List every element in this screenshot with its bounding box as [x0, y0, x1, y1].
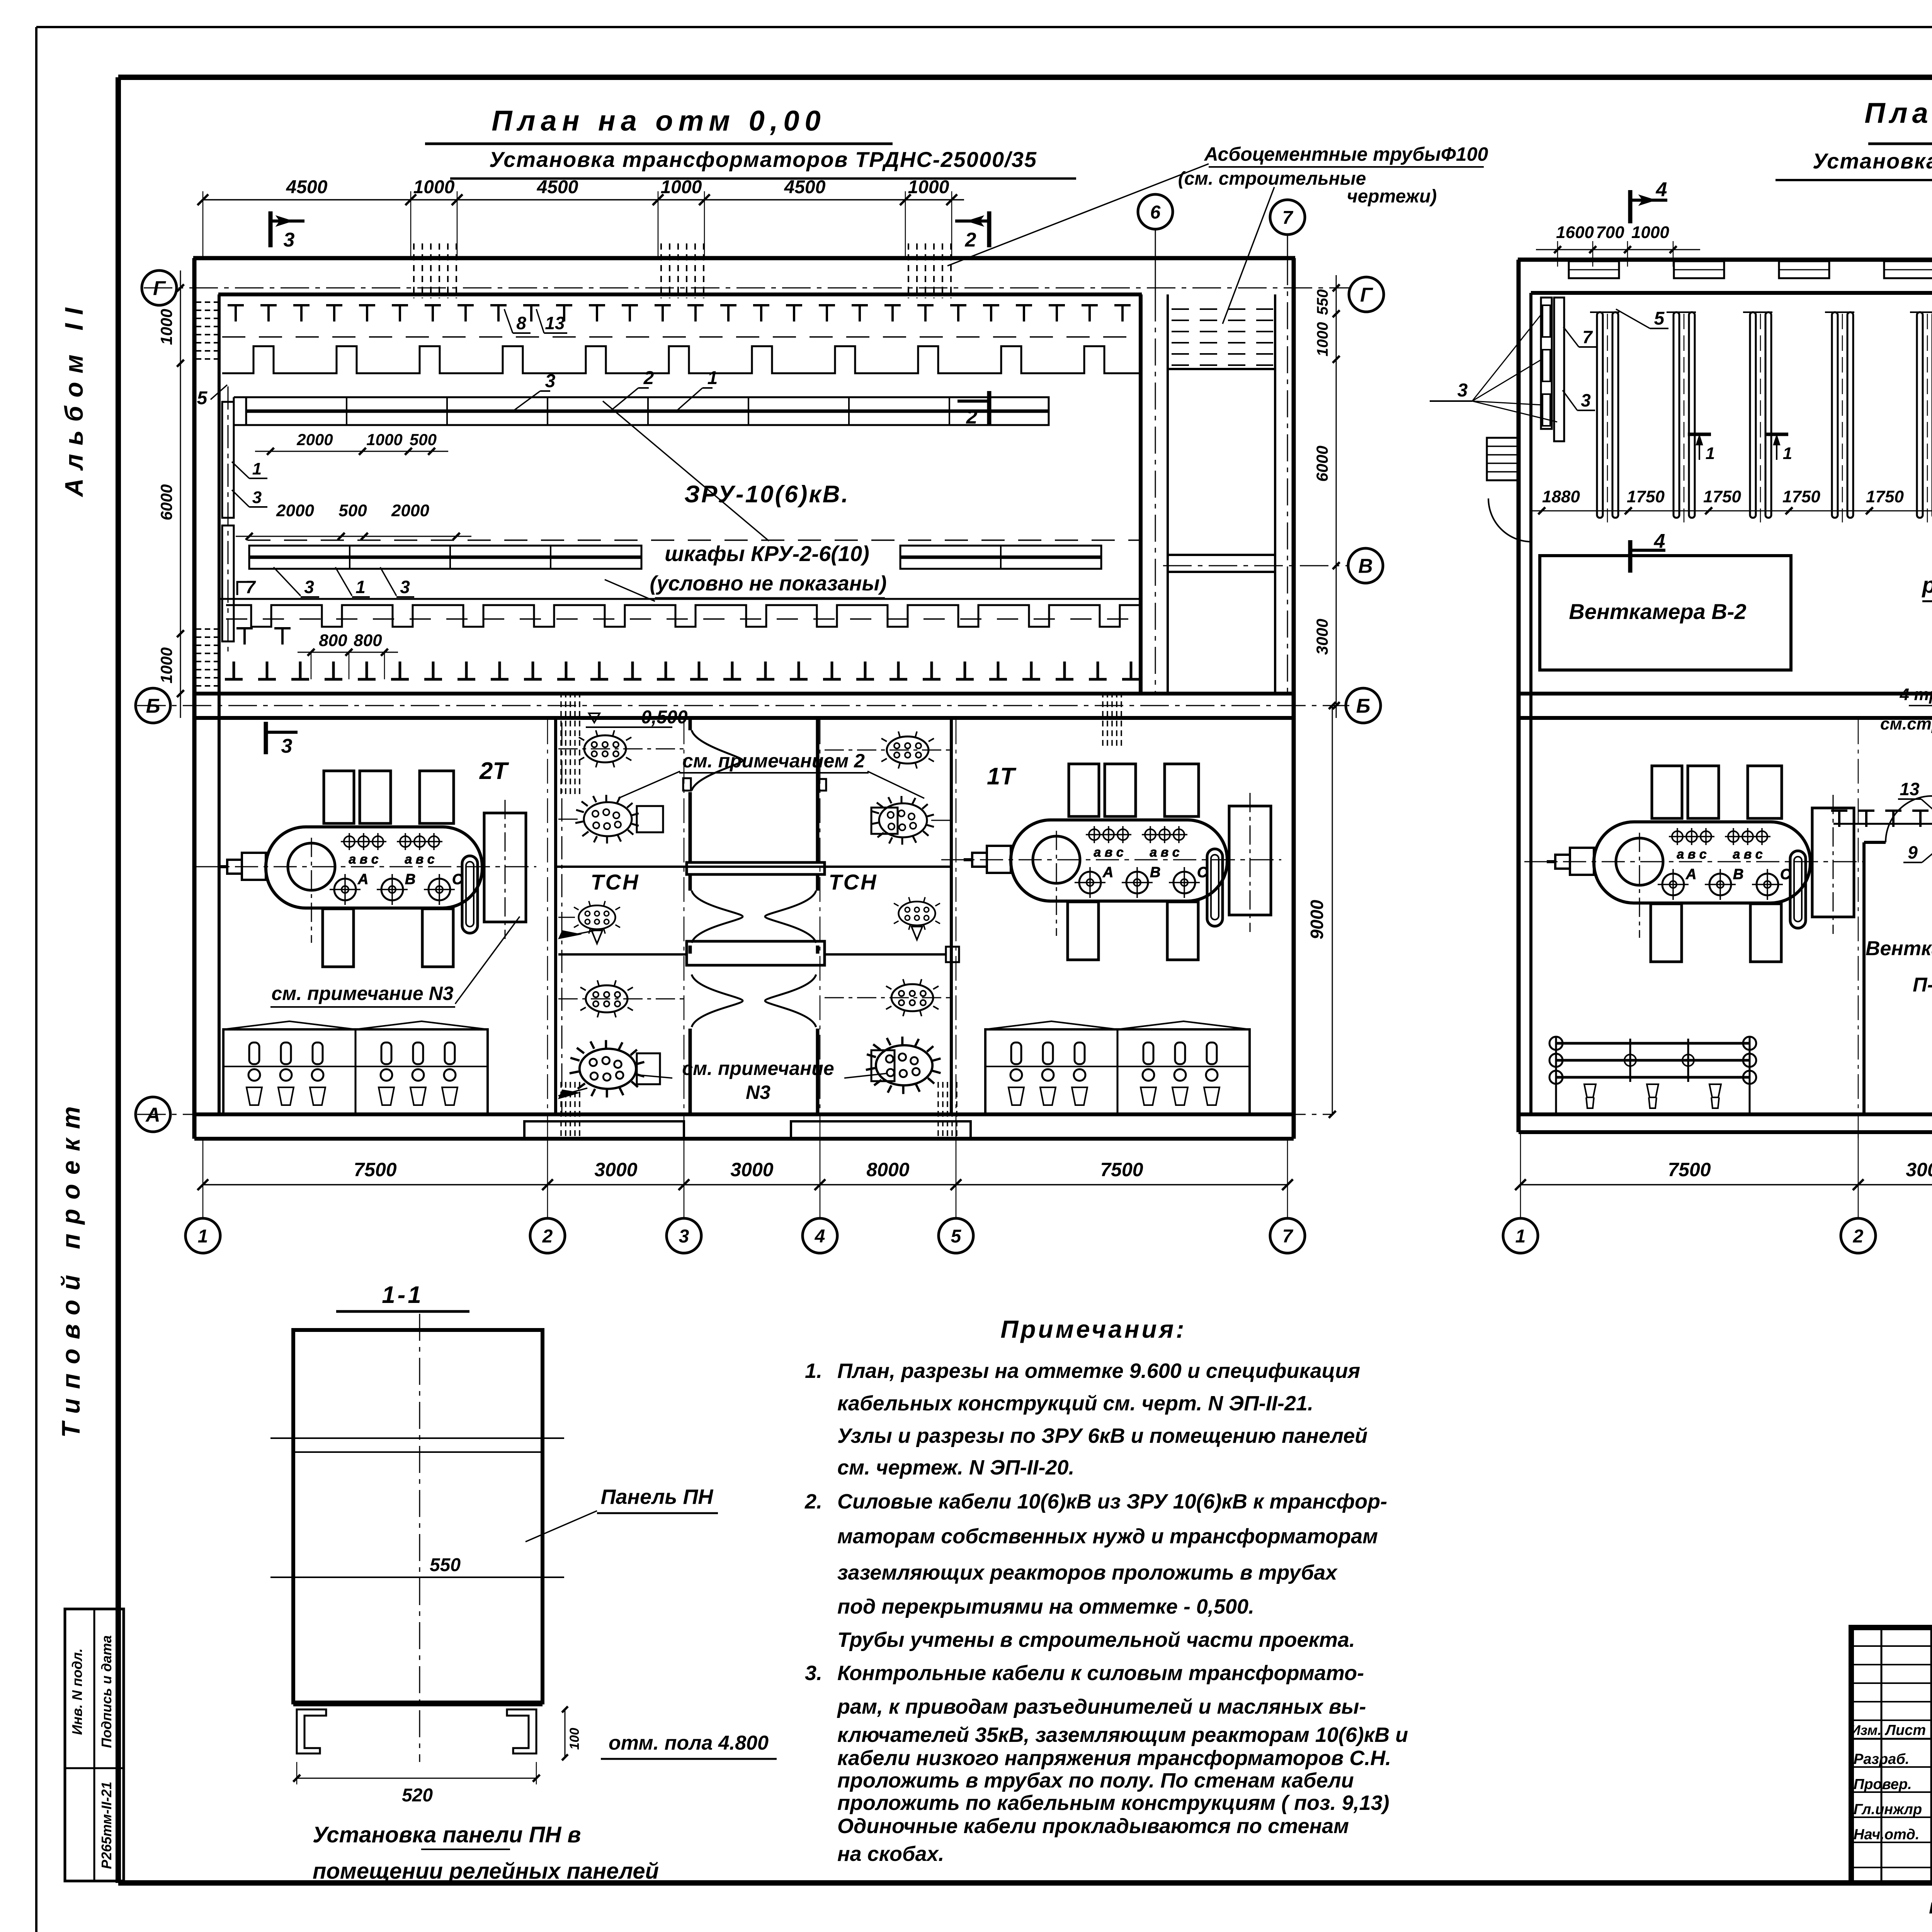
svg-text:700: 700: [1596, 223, 1624, 242]
svg-text:1: 1: [1515, 1226, 1526, 1247]
riser bundle crossing wall А left: [560, 1082, 562, 1140]
axis dash-dot verticals right plan: [1858, 719, 1859, 1138]
svg-text:релейных панелей: релейных панелей: [1921, 573, 1932, 598]
svg-text:1: 1: [1706, 444, 1715, 463]
svg-text:7500: 7500: [354, 1159, 396, 1180]
svg-text:550: 550: [430, 1555, 461, 1575]
svg-text:1880: 1880: [1542, 487, 1580, 506]
TSN spiky switchgear with attachment: [575, 795, 639, 844]
svg-text:П-2: П-2: [1913, 974, 1932, 996]
svg-text:(см. строительные: (см. строительные: [1178, 168, 1366, 189]
svg-text:3: 3: [281, 735, 293, 757]
grid circle В right: [1348, 548, 1383, 583]
svg-text:Г: Г: [153, 277, 166, 300]
svg-text:Альбом II: Альбом II: [60, 299, 88, 498]
svg-text:1000: 1000: [366, 430, 402, 449]
revision table verticals: [1881, 1628, 1883, 1883]
section flag 2 top: [987, 211, 992, 247]
svg-text:Контрольные кабели к силовым: Контрольные кабели к силовым трансформат…: [837, 1662, 1364, 1685]
svg-text:1000: 1000: [908, 177, 949, 197]
svg-text:2Т: 2Т: [479, 758, 509, 784]
svg-text:Нач.отд.: Нач.отд.: [1854, 1827, 1919, 1843]
signature rows: [1851, 1766, 1932, 1768]
svg-text:Подпись и дата: Подпись и дата: [99, 1635, 114, 1748]
svg-text:проложить в трубах по полу: проложить в трубах по полу. По стенам ка…: [837, 1769, 1354, 1792]
channel profiles under panel: [297, 1709, 326, 1753]
door threshold pads bottom wall: [524, 1121, 684, 1139]
TSN big spiky switchgear bottom: [570, 1040, 645, 1098]
right plan building outer walls: [1518, 258, 1932, 262]
svg-text:2: 2: [542, 1226, 553, 1247]
left plan building outer walls: [193, 256, 1295, 260]
svg-text:Б: Б: [1356, 695, 1371, 718]
transformer 2T: [196, 771, 536, 967]
svg-text:5: 5: [197, 388, 208, 408]
svg-text:7: 7: [1582, 327, 1593, 347]
cable channel band 2: [249, 546, 641, 556]
dim 100 vertical: [565, 1709, 566, 1757]
svg-text:Б: Б: [146, 695, 160, 718]
vent chamber P-2 walls: [1862, 842, 1866, 1114]
svg-text:13: 13: [545, 313, 565, 333]
svg-text:1750: 1750: [1703, 487, 1741, 506]
busbar assembly right (1T room): [985, 1021, 1250, 1029]
svg-text:800: 800: [319, 631, 347, 650]
svg-text:Установка трансформаторов ТР: Установка трансформаторов ТРДНС-25000/35: [489, 147, 1037, 172]
annex room divisions: [1168, 368, 1275, 370]
panel pair axis dash lines: [1607, 314, 1608, 522]
svg-text:Силовые кабели 10(6)кВ из ЗР: Силовые кабели 10(6)кВ из ЗРУ 10(6)кВ к …: [837, 1490, 1387, 1513]
svg-text:Типовой проект: Типовой проект: [56, 1097, 85, 1438]
axis B dash-dot (annex): [1163, 565, 1349, 566]
svg-text:см. примечание N3: см. примечание N3: [271, 983, 453, 1004]
svg-text:2000: 2000: [391, 501, 429, 520]
svg-text:см. чертеж. N ЭП-II-20.: см. чертеж. N ЭП-II-20.: [837, 1456, 1075, 1479]
left-side cable structures in hall: [1541, 298, 1552, 429]
svg-text:3000: 3000: [730, 1159, 773, 1180]
svg-text:копировал: Ш.Фил ф.22: копировал: Ш.Фил ф.22: [1929, 1895, 1932, 1918]
svg-text:В: В: [1358, 555, 1373, 578]
axis Б dash-dot line: [137, 705, 1349, 706]
exterior stair left side: [1487, 438, 1518, 480]
svg-text:5: 5: [1654, 308, 1665, 329]
section flag 4 top: [1628, 190, 1633, 223]
revision table small rows: [1851, 1645, 1932, 1647]
svg-text:чертежи): чертежи): [1347, 186, 1437, 207]
svg-text:3: 3: [400, 577, 410, 597]
svg-text:Р265тм-II-21: Р265тм-II-21: [99, 1782, 114, 1869]
bottom line of panel: [293, 1703, 543, 1706]
svg-text:500: 500: [338, 501, 367, 520]
svg-text:проложить по кабельным конс: проложить по кабельным конструкциям ( по…: [837, 1791, 1389, 1815]
svg-text:5: 5: [951, 1226, 962, 1247]
title block outer border: [1851, 1628, 1932, 1883]
sheet outer border: [36, 26, 1932, 28]
riser bundle crossing wall А mid: [937, 1082, 939, 1140]
svg-text:Трубы учтены в строительной: Трубы учтены в строительной части проект…: [837, 1628, 1355, 1651]
grid circle 6 top with axis line: [1138, 194, 1173, 229]
svg-text:Венткамера В-2: Венткамера В-2: [1569, 599, 1746, 624]
sheet inner frame: [118, 75, 1932, 80]
corridor walls with door gaps: [689, 718, 692, 730]
svg-text:4500: 4500: [784, 177, 826, 197]
svg-text:4: 4: [1654, 530, 1665, 553]
svg-text:7: 7: [1282, 1226, 1294, 1247]
section flag 3 top: [269, 211, 273, 247]
svg-text:см. примечание: см. примечание: [682, 1058, 834, 1079]
standing T row above wall B: [225, 662, 243, 679]
svg-text:2.: 2.: [804, 1490, 822, 1513]
svg-text:1000: 1000: [661, 177, 702, 197]
svg-text:1750: 1750: [1782, 487, 1820, 506]
svg-text:отм. пола 4.800: отм. пола 4.800: [609, 1732, 769, 1754]
svg-text:Инв. N подл.: Инв. N подл.: [69, 1648, 85, 1735]
svg-text:1: 1: [1783, 444, 1792, 463]
svg-text:под перекрытиями на отметке: под перекрытиями на отметке - 0,500.: [837, 1595, 1254, 1618]
panel horizontal joints: [270, 1437, 564, 1439]
svg-text:8: 8: [516, 313, 526, 333]
lower interior partition walls: [554, 718, 557, 1114]
svg-text:4500: 4500: [537, 177, 578, 197]
svg-text:520: 520: [402, 1785, 433, 1806]
svg-text:План на отм. 4.800: План на отм. 4.800: [1864, 97, 1932, 129]
section flag 2 mid hall: [987, 391, 992, 424]
svg-text:8000: 8000: [866, 1159, 909, 1180]
svg-text:Асбоцементные трубыФ100: Асбоцементные трубыФ100: [1204, 143, 1488, 165]
annex asbestos pipe zone dashes: [1172, 308, 1273, 310]
grid circle А left: [136, 1097, 170, 1132]
svg-text:Примечания:: Примечания:: [1000, 1315, 1186, 1343]
svg-text:100: 100: [567, 1728, 582, 1750]
transformer 1T: [941, 764, 1281, 960]
left plan top dimension line 4500/1000: [203, 199, 964, 201]
svg-text:7500: 7500: [1100, 1159, 1143, 1180]
hall ceiling hanger T row: [228, 305, 244, 321]
busbar assembly left (2T room): [223, 1021, 488, 1029]
svg-text:3: 3: [1581, 390, 1591, 410]
svg-text:1750: 1750: [1627, 487, 1665, 506]
svg-text:Разраб.: Разраб.: [1854, 1751, 1909, 1767]
svg-text:ТСН: ТСН: [828, 870, 878, 894]
svg-text:1600: 1600: [1556, 223, 1594, 242]
svg-text:2: 2: [643, 368, 654, 388]
svg-text:Одиночные кабели прокладываю: Одиночные кабели прокладываются по стена…: [837, 1815, 1349, 1838]
svg-text:N3: N3: [746, 1082, 770, 1103]
svg-text:Г: Г: [1360, 284, 1373, 306]
svg-text:1000: 1000: [157, 309, 175, 345]
right vertical dimension line upper: [1336, 275, 1337, 718]
comb teeth row lower: [226, 605, 1140, 627]
svg-text:рам, к приводам разъединителе: рам, к приводам разъединителей и масляны…: [837, 1695, 1366, 1718]
svg-text:7500: 7500: [1668, 1159, 1711, 1180]
svg-text:1000: 1000: [157, 647, 175, 683]
busbar frame left (right plan): [1556, 1042, 1750, 1045]
svg-text:3000: 3000: [1313, 619, 1331, 655]
svg-text:Панель ПН: Панель ПН: [601, 1485, 714, 1509]
svg-text:- 0,500: - 0,500: [630, 707, 688, 728]
grid circle Г right: [1349, 277, 1384, 312]
left wall hatch bundle near Б: [196, 628, 218, 630]
axis Г dash-dot line: [144, 287, 1350, 289]
svg-text:4500: 4500: [286, 177, 328, 197]
svg-text:2000: 2000: [276, 501, 314, 520]
svg-text:маторам собственных нужд и: маторам собственных нужд и трансформатор…: [837, 1525, 1378, 1548]
svg-text:6000: 6000: [1313, 446, 1331, 481]
floor level mark -0,500: [589, 713, 600, 723]
revision header row: [1851, 1738, 1932, 1740]
svg-text:Гл.инжлр: Гл.инжлр: [1854, 1801, 1922, 1818]
svg-text:9000: 9000: [1307, 900, 1327, 939]
svg-text:План на отм 0,00: План на отм 0,00: [492, 105, 826, 137]
svg-text:см. примечанием 2: см. примечанием 2: [682, 750, 865, 772]
svg-text:3: 3: [284, 229, 295, 251]
svg-text:План, разрезы на отметке 9.: План, разрезы на отметке 9.600 и специфи…: [837, 1359, 1360, 1383]
svg-text:4: 4: [815, 1226, 825, 1247]
svg-text:А: А: [145, 1104, 160, 1126]
section flag 4 lower: [1628, 540, 1633, 573]
wall band at axis B (lower edge of hall): [194, 692, 1294, 696]
svg-text:кабели низкого напряжения: кабели низкого напряжения трансформаторо…: [837, 1747, 1391, 1770]
svg-text:3000: 3000: [1906, 1159, 1932, 1180]
svg-text:Провер.: Провер.: [1854, 1776, 1912, 1793]
svg-text:800: 800: [354, 631, 382, 650]
svg-text:3: 3: [545, 371, 556, 391]
right plan bottom dimension line: [1520, 1184, 1932, 1185]
grid circle 7 top with axis line: [1270, 200, 1305, 235]
svg-text:550: 550: [1314, 289, 1331, 315]
svg-text:1000: 1000: [1631, 223, 1669, 242]
door arc left entrance: [1488, 498, 1532, 542]
svg-text:на скобах.: на скобах.: [837, 1842, 944, 1866]
grid circles bottom row right plan: [1503, 1218, 1538, 1253]
svg-text:3: 3: [304, 577, 314, 597]
left strip stamp boxes: [65, 1609, 124, 1881]
bottom wall and axis A: [194, 1112, 1294, 1116]
panel dimension line 1880 1750x5 1600: [1531, 510, 1932, 512]
svg-text:(условно не показаны): (условно не показаны): [650, 572, 886, 595]
wall band at axis Б right plan: [1519, 692, 1932, 696]
TSN section boundary dash-dot lines: [561, 723, 563, 1113]
svg-text:1000: 1000: [413, 177, 455, 197]
svg-text:500: 500: [410, 430, 437, 449]
small transformer symbols mid row: [574, 901, 620, 934]
svg-text:3000: 3000: [594, 1159, 637, 1180]
TSN door leaves (pointed crescents): [692, 730, 743, 760]
svg-text:3: 3: [252, 488, 262, 507]
panel PN elevation rectangle: [293, 1330, 543, 1702]
svg-text:1: 1: [252, 459, 262, 478]
mid wall bar of TSN corridor: [687, 862, 825, 874]
svg-text:помещении релейных панелей: помещении релейных панелей: [313, 1859, 659, 1884]
section flag 3 lower room: [264, 722, 268, 754]
svg-text:1: 1: [198, 1226, 208, 1247]
svg-text:Венткамера: Венткамера: [1866, 937, 1932, 960]
transformer right plan left: [1524, 766, 1864, 962]
svg-text:Узлы и разрезы по ЗРУ 6кВ: Узлы и разрезы по ЗРУ 6кВ и помещению па…: [837, 1424, 1367, 1447]
comb teeth row upper (cable trench edge): [222, 346, 1140, 373]
small wall squares: [683, 778, 691, 791]
grid circles bottom row left plan: [185, 1218, 220, 1253]
leader from KRU label to band: [603, 401, 769, 541]
small tee pair: [236, 628, 253, 645]
left wall hatch bundle near Г: [196, 301, 218, 303]
riser bundle crossing wall Б right: [1102, 692, 1104, 748]
svg-text:6000: 6000: [157, 484, 175, 520]
svg-text:7: 7: [245, 577, 256, 597]
axis А dash-dot line: [137, 1114, 1332, 1115]
svg-text:3.: 3.: [805, 1662, 822, 1685]
bottom wall right plan: [1519, 1112, 1932, 1116]
dashed line above band 2: [247, 539, 1140, 541]
axis dash-dot verticals lower rooms: [547, 719, 548, 1138]
labels 7 3 1 3 under band 2: [237, 582, 250, 595]
panel centerline: [419, 1314, 420, 1762]
grid circle Г left: [142, 270, 177, 305]
relay panel pairs in hall: [1597, 312, 1603, 518]
svg-text:Изм.: Изм.: [1850, 1722, 1881, 1738]
svg-text:3: 3: [1458, 380, 1468, 401]
svg-text:2000: 2000: [296, 430, 333, 449]
svg-text:Установка трансформаторов ТР: Установка трансформаторов ТРДНС-25000/35: [1813, 149, 1932, 173]
dim 520: [297, 1778, 536, 1779]
svg-text:1000: 1000: [1314, 322, 1331, 357]
svg-text:шкафы КРУ-2-6(10): шкафы КРУ-2-6(10): [665, 541, 869, 566]
svg-text:1750: 1750: [1866, 487, 1904, 506]
svg-text:1: 1: [707, 368, 718, 388]
hall lower solid line: [219, 598, 1140, 600]
svg-text:4: 4: [1656, 179, 1667, 201]
grid circle Б right: [1346, 688, 1381, 723]
svg-text:1Т: 1Т: [987, 763, 1017, 790]
svg-text:ключателей 35кВ, заземляющим р: ключателей 35кВ, заземляющим реакторам 1…: [837, 1723, 1408, 1747]
svg-text:13: 13: [1900, 779, 1920, 799]
svg-text:Лист: Лист: [1884, 1722, 1926, 1738]
svg-text:ТСН: ТСН: [590, 870, 639, 894]
left plan bottom dimension line: [203, 1184, 1287, 1185]
cable rack tees near P-2: [1831, 811, 1847, 827]
svg-text:2: 2: [1853, 1226, 1864, 1247]
svg-text:3: 3: [679, 1226, 689, 1247]
svg-text:1.: 1.: [805, 1359, 822, 1383]
cable channel band 1: [246, 397, 1049, 410]
grid circle Б left: [136, 688, 170, 723]
svg-text:6: 6: [1150, 202, 1161, 223]
dashed line below hangers: [222, 336, 1140, 338]
cable duct bar across corridor: [687, 941, 825, 965]
svg-text:заземляющих реакторов пролож: заземляющих реакторов проложить в трубах: [837, 1561, 1338, 1584]
top wall window pattern: [1569, 261, 1619, 278]
svg-text:кабельных конструкций см. че: кабельных конструкций см. черт. N ЭП-II-…: [837, 1392, 1313, 1415]
left wall cable risers: [222, 402, 234, 518]
left vertical dimension line: [180, 270, 181, 718]
svg-text:1-1: 1-1: [382, 1282, 423, 1308]
svg-text:7: 7: [1282, 207, 1294, 228]
section flags 1 in hall: [1688, 433, 1711, 436]
svg-text:см.стр.черт: см.стр.черт: [1880, 714, 1932, 733]
vent chamber B-2 room: [1540, 556, 1791, 670]
svg-text:ЗРУ-10(6)кВ.: ЗРУ-10(6)кВ.: [684, 481, 850, 508]
riser bundle crossing wall Б left: [560, 692, 562, 794]
svg-text:9: 9: [1908, 842, 1918, 862]
dimension 9000 right side: [1332, 706, 1333, 1114]
svg-text:Установка панели ПН в: Установка панели ПН в: [313, 1822, 581, 1847]
asbestos pipe bundles through top wall: [413, 243, 415, 298]
svg-text:2: 2: [965, 229, 976, 251]
TSN switchgear symbols: [579, 730, 631, 767]
svg-text:1: 1: [355, 577, 366, 597]
svg-text:4 тр Ф100: 4 тр Ф100: [1900, 685, 1932, 704]
svg-text:2: 2: [966, 406, 978, 428]
